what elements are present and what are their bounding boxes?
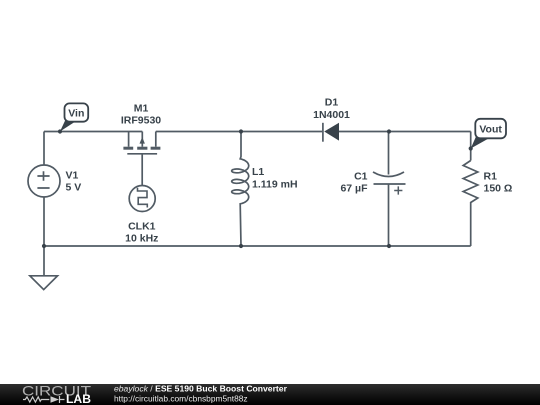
svg-text:M1: M1 — [134, 103, 149, 115]
svg-text:C1: C1 — [354, 171, 368, 183]
svg-text:10 kHz: 10 kHz — [125, 233, 158, 245]
svg-text:Vin: Vin — [68, 108, 84, 120]
svg-text:5 V: 5 V — [66, 182, 82, 194]
svg-text:Vout: Vout — [479, 124, 502, 136]
svg-text:1.119 mH: 1.119 mH — [252, 179, 298, 191]
svg-text:CLK1: CLK1 — [128, 221, 156, 233]
svg-text:LAB: LAB — [66, 394, 91, 405]
svg-text:L1: L1 — [252, 166, 264, 178]
svg-text:V1: V1 — [66, 170, 79, 182]
svg-text:67 µF: 67 µF — [340, 183, 368, 195]
svg-text:1N4001: 1N4001 — [313, 109, 350, 121]
svg-text:150 Ω: 150 Ω — [484, 183, 513, 195]
svg-text:ebaylock / ESE 5190 Buck Boost: ebaylock / ESE 5190 Buck Boost Converter — [114, 384, 288, 394]
svg-text:D1: D1 — [325, 97, 339, 109]
svg-text:http://circuitlab.com/cbnsbpm5: http://circuitlab.com/cbnsbpm5nt88z — [114, 394, 248, 404]
svg-text:IRF9530: IRF9530 — [121, 115, 161, 127]
svg-text:R1: R1 — [484, 171, 498, 183]
